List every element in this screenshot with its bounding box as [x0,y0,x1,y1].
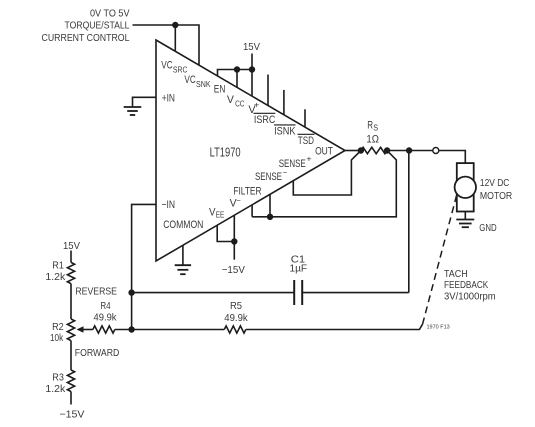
svg-text:CURRENT CONTROL: CURRENT CONTROL [42,33,130,44]
svg-text:FORWARD: FORWARD [75,348,120,359]
svg-text:1Ω: 1Ω [366,133,379,145]
svg-text:0V TO 5V: 0V TO 5V [90,9,130,20]
svg-text:1.2k: 1.2k [45,272,66,283]
svg-text:MOTOR: MOTOR [480,191,512,202]
svg-text:R3: R3 [52,373,64,384]
svg-text:TACH: TACH [444,269,468,280]
svg-text:+IN: +IN [162,93,175,105]
svg-text:15V: 15V [63,241,80,252]
svg-text:TORQUE/STALL: TORQUE/STALL [65,21,130,32]
svg-text:REVERSE: REVERSE [75,287,117,298]
svg-text:S: S [373,124,378,133]
svg-text:EN: EN [214,84,226,96]
svg-text:V: V [227,94,235,106]
svg-text:FEEDBACK: FEEDBACK [444,280,488,291]
svg-text:ISRC: ISRC [254,114,275,126]
svg-text:FILTER: FILTER [233,185,261,197]
svg-text:1970 F13: 1970 F13 [427,324,450,330]
svg-text:15V: 15V [243,42,260,53]
svg-text:+: + [254,101,260,110]
svg-text:−15V: −15V [222,265,245,276]
svg-text:OUT: OUT [315,146,333,158]
svg-text:R: R [367,119,373,131]
svg-text:R4: R4 [100,301,110,312]
svg-text:R2: R2 [52,322,64,333]
svg-text:EE: EE [216,210,225,219]
svg-text:CC: CC [235,100,245,109]
svg-text:1.2k: 1.2k [45,384,66,395]
svg-text:10k: 10k [50,333,64,344]
svg-text:VC: VC [184,74,195,86]
svg-text:1µF: 1µF [289,264,307,275]
svg-text:R1: R1 [52,261,64,272]
svg-text:SENSE: SENSE [255,171,282,183]
svg-text:+: + [306,155,312,164]
svg-text:TSD: TSD [298,135,314,147]
svg-text:SENSE: SENSE [279,158,306,170]
svg-text:12V DC: 12V DC [480,178,510,189]
svg-text:49.9k: 49.9k [94,313,118,324]
svg-text:−IN: −IN [162,199,176,211]
svg-text:COMMON: COMMON [163,219,203,231]
svg-text:49.9k: 49.9k [224,313,248,324]
svg-text:LT1970: LT1970 [210,144,241,159]
svg-text:−15V: −15V [60,410,85,421]
svg-text:R5: R5 [230,301,242,312]
svg-text:VC: VC [161,60,172,72]
svg-text:SNK: SNK [196,80,211,89]
svg-text:ISNK: ISNK [274,126,296,138]
svg-text:GND: GND [479,223,496,234]
svg-text:3V/1000rpm: 3V/1000rpm [444,291,496,302]
